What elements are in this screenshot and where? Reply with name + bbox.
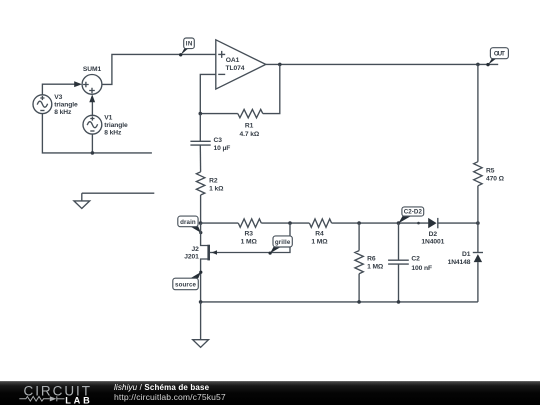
svg-text:http://circuitlab.com/c75ku57: http://circuitlab.com/c75ku57: [114, 392, 226, 402]
resistor R4: [309, 219, 331, 246]
svg-text:8 kHz: 8 kHz: [54, 109, 72, 116]
wire gate to riser up to R3/R4 node: [217, 223, 290, 252]
capacitor C3: [190, 137, 230, 152]
svg-text:J2: J2: [191, 246, 199, 253]
svg-text:TL074: TL074: [226, 65, 245, 72]
svg-text:8 kHz: 8 kHz: [104, 130, 122, 137]
flag grille: [269, 236, 293, 255]
svg-text:V3: V3: [54, 94, 62, 101]
wire C3 to R2: [199, 145, 201, 172]
resistor R6: [355, 223, 384, 302]
svg-text:C2-D2: C2-D2: [404, 209, 423, 216]
wire node down to C3: [199, 114, 201, 142]
resistor R5: [474, 162, 505, 186]
svg-text:470 Ω: 470 Ω: [486, 175, 505, 182]
wire D1 anode to bottom rail: [477, 262, 479, 302]
wire feedback: output down, left to R1: [263, 64, 280, 113]
wire R4 to D2 anode: [332, 222, 429, 224]
svg-text:1 kΩ: 1 kΩ: [209, 185, 224, 192]
node output feedback tap: [278, 63, 282, 67]
junction dot V1/rail: [91, 151, 95, 155]
flag drain: [178, 216, 203, 234]
diode D1: [448, 251, 483, 266]
svg-text:triangle: triangle: [54, 102, 78, 109]
wire R5 to D2 row: [477, 186, 479, 253]
svg-text:R5: R5: [486, 167, 495, 174]
svg-text:R2: R2: [209, 177, 218, 184]
ground left: [74, 193, 154, 208]
svg-text:R1: R1: [245, 122, 254, 129]
node source column / rail: [199, 300, 203, 304]
bottom rail: [201, 301, 478, 303]
JFET J2: [184, 223, 217, 302]
flag OUT: [486, 48, 508, 67]
ground bottom: [193, 302, 209, 347]
svg-text:V1: V1: [104, 115, 112, 122]
right rail: output down to R5: [477, 64, 479, 161]
svg-text:1N4001: 1N4001: [421, 239, 444, 246]
wire R3 to R4: [261, 222, 309, 224]
node C2 tap: [397, 221, 401, 225]
svg-text:IN: IN: [186, 41, 193, 48]
svg-text:1 MΩ: 1 MΩ: [311, 238, 328, 245]
node R6 tap: [357, 221, 361, 225]
svg-text:1 MΩ: 1 MΩ: [367, 264, 384, 271]
node output right rail tap: [476, 63, 480, 67]
svg-text:J201: J201: [184, 254, 199, 261]
voltage source V1: [83, 115, 128, 137]
wire SUM1 out to IN row: [102, 54, 216, 84]
svg-text:1 MΩ: 1 MΩ: [241, 238, 258, 245]
node drain junction: [199, 221, 203, 225]
svg-text:LAB: LAB: [65, 395, 90, 405]
node R3/R4 gate riser junction: [288, 221, 292, 225]
resistor R3: [238, 219, 261, 246]
wire R2 to drain node: [200, 195, 202, 223]
capacitor C2: [388, 223, 432, 302]
wire V3 top to SUM1 row: [42, 84, 75, 95]
svg-text:drain: drain: [180, 219, 196, 226]
flag IN: [179, 38, 194, 57]
wire D2 cathode to right rail: [438, 222, 478, 224]
wire op-amp output row: [266, 63, 498, 65]
arrowhead into SUM1 left: [74, 81, 82, 87]
svg-text:OA1: OA1: [226, 57, 240, 64]
svg-text:triangle: triangle: [104, 122, 128, 129]
node C2 / rail: [397, 300, 401, 304]
wire V1 top to SUM1 bottom: [91, 101, 93, 115]
node small wire-end dot: [417, 222, 420, 225]
svg-text:R3: R3: [245, 230, 254, 237]
summer SUM1: [82, 66, 102, 94]
svg-text:10 µF: 10 µF: [214, 145, 231, 152]
voltage source V3: [33, 94, 78, 116]
diode D2: [421, 218, 444, 246]
node R6 / rail: [357, 300, 361, 304]
svg-text:R4: R4: [315, 230, 324, 237]
svg-text:SUM1: SUM1: [83, 66, 102, 73]
svg-text:C3: C3: [214, 137, 223, 144]
svg-text:lishiyu / Schéma de base: lishiyu / Schéma de base: [114, 383, 210, 392]
svg-text:grille: grille: [275, 239, 291, 246]
arrowhead into SUM1 bottom: [89, 94, 95, 102]
svg-text:1N4148: 1N4148: [448, 259, 471, 266]
svg-text:4.7 kΩ: 4.7 kΩ: [239, 131, 259, 138]
resistor R1: [238, 109, 263, 137]
wire R1 left to feedback node, up to op-amp minus: [200, 74, 238, 113]
op-amp OA1: [216, 40, 266, 89]
svg-text:OUT: OUT: [494, 51, 505, 58]
wire V3 bottom to sources rail: [42, 114, 151, 153]
svg-text:D2: D2: [429, 231, 438, 238]
svg-text:D1: D1: [462, 251, 471, 258]
footer bar: [0, 381, 540, 405]
node right rail / D2 row: [476, 221, 480, 225]
svg-text:R6: R6: [367, 256, 376, 263]
logo squiggle resistor+diode: [19, 396, 64, 401]
flag source: [173, 271, 203, 290]
node feedback/C3 junction: [198, 112, 202, 116]
svg-text:source: source: [175, 282, 197, 289]
wire V1 bottom to sources rail: [91, 134, 93, 153]
svg-text:C2: C2: [411, 256, 420, 263]
wire drain row to R3: [201, 222, 239, 224]
resistor R2: [196, 172, 224, 195]
flag C2-D2: [399, 207, 424, 223]
svg-text:100 nF: 100 nF: [411, 265, 432, 272]
